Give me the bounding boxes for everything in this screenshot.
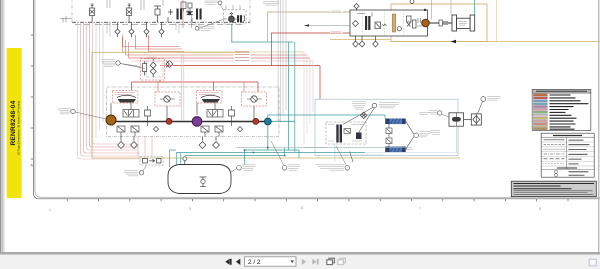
main suction line	[106, 121, 269, 123]
callout circle pump hydraulic left	[71, 109, 75, 113]
pale return path below block	[335, 144, 383, 162]
cutoff label text	[124, 171, 138, 176]
last-page button (disabled)	[312, 259, 318, 265]
svg-text:9: 9	[539, 207, 541, 211]
hydraulic tank body	[168, 165, 231, 194]
callout circle accumulator	[195, 26, 199, 30]
oil cooler upper core	[385, 119, 406, 125]
fan motor right plate	[470, 15, 475, 31]
frame tick marks left	[31, 35, 34, 159]
teal junction dots	[244, 147, 286, 157]
leader metering	[336, 146, 347, 166]
case drain diamonds pump1	[118, 137, 138, 149]
relief valve V3	[154, 6, 161, 22]
pale signal bends into metering gp	[304, 52, 313, 144]
teal return bundle line2	[245, 150, 300, 165]
leader reducing valve	[478, 101, 483, 114]
check valve diamond D2	[129, 22, 134, 37]
tank label text	[243, 165, 256, 170]
governor label marks pump1	[115, 93, 135, 95]
accumulator charge valve	[237, 15, 242, 22]
next-view icon (disabled)	[338, 258, 346, 264]
cutoff valve symbols	[143, 159, 162, 164]
pump 2 charge circle (purple)	[192, 117, 202, 127]
red fan supply line	[272, 33, 351, 66]
pump return callout circle	[282, 166, 287, 171]
pump1 cluster symbols	[111, 103, 167, 137]
pale drop from screen filter	[455, 126, 457, 152]
spring symbol	[382, 24, 387, 26]
manifold mid tiny orifices	[186, 10, 192, 23]
teal pilot supply line from accumulator	[232, 24, 294, 42]
teal drain from fan motor	[474, 0, 476, 15]
tan pressure gallery	[392, 14, 396, 32]
grey arrow line to fan block	[305, 25, 351, 27]
pump accessory cluster	[181, 2, 192, 12]
pilot manifold gp dash-dot outline	[72, 21, 250, 23]
arrow on tan line	[451, 40, 457, 44]
red line label gap	[330, 31, 343, 35]
screen filter capsule	[452, 117, 461, 122]
dropdown arrow in field	[290, 260, 294, 263]
red pilot supply drop	[160, 66, 172, 83]
svg-text:2 / 2: 2 / 2	[248, 259, 261, 266]
inlet check diamond	[353, 21, 359, 27]
first-page button	[225, 259, 231, 265]
tan return line continuing east	[92, 157, 460, 159]
teal return bundle line4	[185, 148, 285, 156]
grey line into block	[305, 146, 326, 148]
grey stub verticals above fan shaft	[432, 0, 452, 20]
grey riser lines x278-286	[278, 0, 286, 122]
pink drain line outer	[78, 22, 141, 159]
fan motor left plate	[452, 15, 457, 31]
diffuser diamond	[473, 114, 480, 125]
red riser lines from manifold	[123, 35, 185, 52]
pump2 cluster symbols	[197, 103, 254, 137]
funnel lines to callout	[406, 121, 414, 149]
swashplate actuator pump 1	[118, 99, 137, 103]
solenoid on spool	[375, 22, 381, 29]
check valve diamond D4	[159, 22, 164, 37]
cooler bypass valve lower	[386, 138, 392, 147]
leader pump return	[271, 141, 284, 166]
relief cartridge pair	[407, 16, 417, 28]
stub lines above manifold	[107, 0, 240, 10]
teal return to cooler	[268, 115, 385, 119]
legend rows	[533, 94, 547, 130]
pump gp dash-dot inner boundary	[107, 87, 280, 137]
cooler label text	[420, 132, 431, 137]
teal drop from node	[267, 125, 269, 150]
callout circle reducing valve	[481, 97, 486, 102]
signal bundle risers	[123, 38, 129, 58]
svg-text:7: 7	[419, 207, 421, 211]
callout circle cooler	[414, 133, 419, 138]
pump hydraulic label text	[102, 60, 115, 67]
compensator box pump 1	[155, 92, 180, 106]
leader line accumulator label	[199, 5, 224, 29]
check valve diamond D1	[115, 22, 120, 37]
manifold left stub	[60, 16, 72, 22]
legend text marks	[550, 95, 589, 129]
tan return line to right	[330, 40, 600, 42]
leaders duplication valve	[343, 107, 375, 133]
svg-text:20 Page (Dimensions: 36 Inches: 20 Page (Dimensions: 36 Inches x 24 Inch…	[16, 101, 20, 155]
callout circle A pump hydraulic	[116, 61, 120, 65]
frame tick marks bottom	[67, 199, 568, 201]
label pump gp electric	[205, 1, 218, 5]
leader from pump label	[120, 64, 145, 69]
metering section label	[316, 165, 344, 170]
leader pump left	[75, 112, 106, 119]
gauge circle	[397, 27, 401, 31]
diamonds below fan block	[353, 36, 379, 47]
fan valve spool	[365, 16, 370, 30]
drawing frame left border	[33, 0, 600, 199]
small orifice symbols	[168, 9, 173, 22]
signal bundle pink	[132, 60, 314, 62]
governor box pump 1	[112, 91, 137, 104]
prev-page button	[236, 259, 240, 265]
screen filter box	[449, 113, 464, 126]
previous-view icon	[327, 258, 335, 264]
yellow bookmark tab	[6, 48, 22, 198]
vent line with circle	[183, 157, 187, 161]
oil cooler lower core	[385, 147, 406, 153]
ANSI notation box	[541, 133, 594, 177]
fan block section dividers	[363, 10, 404, 36]
callouts subheader	[557, 167, 577, 169]
block internal dashes	[328, 125, 364, 142]
gear pump bowtie symbol	[188, 12, 193, 15]
metering valve outer boundary	[315, 99, 458, 155]
junction node teal	[264, 118, 271, 125]
callout circle duplication valve	[372, 103, 376, 107]
connecting line filter to diffuser	[464, 119, 472, 121]
teal drop to tank left	[170, 150, 177, 167]
teal drops into tank	[176, 153, 181, 177]
callout circle cutoff	[139, 171, 143, 175]
page number field	[245, 257, 297, 266]
teal return bundle line3	[176, 152, 365, 154]
red supply main horizontal	[173, 66, 321, 100]
notation text marks	[569, 140, 590, 164]
signal bundle tan	[123, 51, 305, 53]
port label row under manifold	[75, 24, 242, 26]
governor box pump 2	[197, 91, 223, 104]
swashplate actuator pump 2	[202, 99, 221, 103]
signal risers into compensators	[158, 82, 244, 92]
viewer right window edge strip	[598, 0, 599, 269]
pale return extension	[365, 152, 458, 154]
svg-text:5: 5	[301, 206, 303, 210]
callout sample circle 2	[554, 174, 557, 177]
metering spool bars	[336, 125, 342, 143]
toolbar background	[0, 255, 600, 269]
leader label to block	[350, 152, 354, 163]
pump return label	[288, 165, 300, 170]
case drain diamonds pump2	[199, 137, 219, 149]
solenoid valve V2	[127, 4, 132, 22]
governor label marks pump2	[199, 93, 219, 95]
metering check block	[356, 133, 362, 140]
tan riser right of fan box	[496, 0, 498, 42]
diamond above block	[354, 4, 359, 11]
piping label above box	[147, 57, 157, 59]
check valve diamond D3	[144, 22, 149, 37]
signal bundle red1	[126, 54, 308, 56]
leader from callout A	[120, 64, 140, 67]
solenoid valve V1	[90, 4, 95, 22]
accumulator inlet mark	[230, 13, 233, 17]
main return label	[419, 113, 430, 115]
accumulator dashed box	[224, 10, 247, 24]
metering solenoid	[344, 129, 351, 134]
notes text lines	[514, 184, 595, 189]
metering valve dashed block	[326, 122, 366, 144]
pump 1 charge circle (orange)	[106, 115, 116, 125]
tan fan demand line	[268, 12, 351, 42]
reducing valve label	[488, 97, 501, 101]
next-page button (disabled)	[302, 259, 306, 265]
small circle top cut	[410, 0, 414, 4]
fan motor body	[457, 18, 471, 28]
svg-text:3: 3	[189, 207, 191, 211]
shaft coupler	[439, 20, 448, 26]
compensator circle pump 2	[251, 96, 257, 102]
suspension cutoff valve dashed box	[140, 157, 163, 166]
toolbar divider	[0, 252, 600, 255]
cooler outlet stub	[406, 148, 413, 150]
fan pump circle	[422, 19, 430, 27]
grey return line1	[236, 146, 412, 148]
spool bars group	[177, 9, 202, 20]
accumulator label text	[201, 27, 215, 31]
leader screen	[442, 114, 450, 117]
inner dash-dot box	[146, 61, 163, 77]
cooler bypass valve upper	[386, 124, 392, 137]
notes box grey	[511, 181, 596, 196]
viewer left window edge strip	[0, 0, 1, 269]
tank label callout	[237, 166, 242, 171]
duplication valve label	[379, 103, 399, 108]
screen label	[429, 111, 438, 115]
signal bundle red2	[129, 57, 311, 59]
right corner layout icon	[589, 259, 596, 266]
metering gp title text	[352, 102, 366, 110]
legend title bar	[532, 90, 591, 94]
frame zone numbers bottom	[49, 206, 541, 212]
notation rows	[541, 140, 594, 166]
accumulator circle	[229, 16, 235, 22]
leader cutoff	[143, 165, 147, 171]
compensator circle pump 1	[164, 96, 170, 102]
pilot filter red dashed box	[141, 59, 165, 81]
junction dot block top	[424, 9, 426, 11]
metering section callout circle	[345, 166, 350, 171]
red return horizontal	[132, 82, 259, 92]
tank strainer	[200, 177, 207, 187]
pink drain drops to cutoff valve	[138, 137, 152, 157]
callout circle screen	[438, 111, 442, 115]
svg-text:1: 1	[49, 208, 51, 212]
purple sense line pair	[182, 55, 184, 120]
teal standby lines down	[289, 42, 295, 153]
pump label text left	[58, 109, 71, 114]
tan demand-fan boundary box	[391, 4, 487, 42]
fan block extra marks	[357, 13, 422, 27]
color legend box	[532, 90, 591, 131]
red drop line from accessory	[183, 0, 192, 28]
notation column divider	[566, 137, 568, 169]
grey pilot lines left	[96, 22, 103, 138]
stacked check diamonds	[150, 59, 156, 77]
callout circle E1	[218, 1, 222, 5]
leader tank	[231, 169, 237, 173]
filter diamond on supply	[166, 61, 173, 68]
signal bundle labels	[235, 52, 249, 61]
label below metering block	[430, 131, 440, 135]
reducing valve cartridge	[143, 61, 147, 76]
pilot drain lines descending left	[81, 22, 141, 156]
drive shaft	[429, 22, 452, 24]
junction node red 1	[166, 118, 172, 124]
svg-text:RENR8248-04: RENR8248-04	[10, 100, 17, 145]
compensator box pump 2	[242, 92, 267, 106]
teal line label gap	[330, 10, 343, 14]
pilot label marks top mid-right	[263, 2, 279, 6]
filter diamond on return	[361, 112, 367, 118]
junction node red 2	[253, 118, 259, 124]
fan valve block body	[350, 10, 428, 36]
ANSI title	[553, 135, 582, 137]
extra grey drop lines from manifold	[107, 22, 199, 37]
callout sample circle 1	[554, 170, 557, 173]
diffuser box	[471, 114, 481, 125]
fan motor text	[459, 22, 467, 26]
pump gp tan boundary box	[92, 52, 250, 158]
